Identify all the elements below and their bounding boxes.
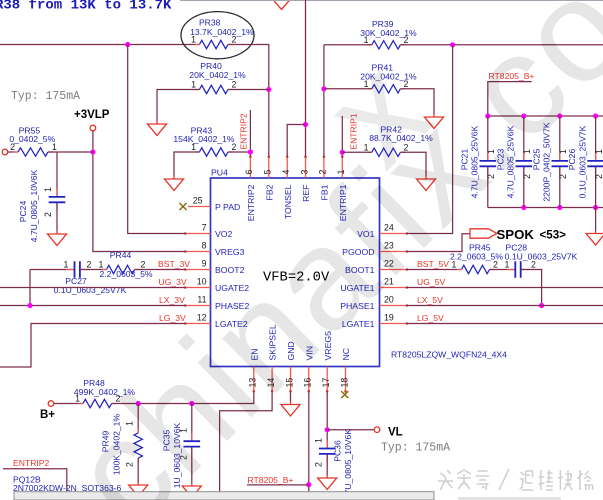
IC top pin stubs pins 6 5 4 3 2 1 <box>250 157 342 179</box>
svg-text:5: 5 <box>263 170 273 175</box>
svg-text:PR44: PR44 <box>110 250 132 260</box>
resistor PR49 <box>134 404 142 483</box>
junctions on cap bank top bus <box>485 113 490 118</box>
svg-text:+3VLP: +3VLP <box>74 109 110 121</box>
wire net ENTRIP2 vertical to pin 6 <box>249 110 251 157</box>
svg-text:0.1U_0603_25V7K: 0.1U_0603_25V7K <box>54 285 127 295</box>
svg-text:ENTRIP2: ENTRIP2 <box>13 458 50 468</box>
svg-text:2: 2 <box>404 35 409 45</box>
svg-text:2: 2 <box>558 174 568 179</box>
resistor PR40 <box>195 85 233 93</box>
capacitor PC28 <box>507 261 529 278</box>
svg-text:7: 7 <box>202 223 207 233</box>
ground for PC36 <box>326 475 328 478</box>
wire B+ to PR48 <box>54 403 83 405</box>
highlight ellipse around PR38 <box>181 12 254 59</box>
wire VO2 branch down and right to pin 7 <box>128 45 185 234</box>
svg-text:1: 1 <box>314 438 324 443</box>
svg-text:0.1U_0603_25V7K: 0.1U_0603_25V7K <box>505 251 578 261</box>
wire ENTRIP1 node to PR42 pin 1 <box>342 151 372 153</box>
junction RT8205_B+ label on VIN wire <box>306 482 311 487</box>
capacitor PC24 <box>49 152 66 231</box>
svg-text:PR38: PR38 <box>199 18 221 28</box>
wire VIN pin 16 down to lower sheet <box>308 392 310 492</box>
junction REF and TONSEL <box>303 122 308 127</box>
wire +3VLP down to VREG3 pin 8 <box>93 131 185 252</box>
svg-text:4.7U_0805_10V6K: 4.7U_0805_10V6K <box>343 429 353 500</box>
capacitor PC36 <box>319 440 336 475</box>
svg-text:BST_3V: BST_3V <box>158 259 190 269</box>
junctions on cap bank bottom bus <box>521 205 526 210</box>
capacitor PC35 <box>184 404 201 484</box>
wire TONSEL pin 4 branch <box>287 125 305 157</box>
ground for PC24 <box>56 231 58 234</box>
svg-text:B+: B+ <box>40 409 55 421</box>
IC left pin stubs pins 25 7 8 9 10 11 12 <box>185 207 211 324</box>
ground for PR49 <box>137 482 139 485</box>
svg-text:9: 9 <box>202 259 207 269</box>
wire PR45 pin 2 to PC28 pin 1 <box>490 269 516 271</box>
junction PC28 and LX_5V <box>539 303 544 308</box>
wire PC27 pin 1 down to LX_3V <box>29 270 31 306</box>
wire cap bank bottom bus <box>488 207 603 209</box>
junction ENTRIP2 and PR43 <box>248 149 253 154</box>
capacitor PC23 <box>516 116 533 208</box>
svg-text:1: 1 <box>43 187 53 192</box>
wire PR41 pin 1 to FB1 node <box>324 88 372 90</box>
svg-text:2: 2 <box>314 462 324 467</box>
junction +3VLP and PR55 <box>90 149 95 154</box>
svg-text:PC36: PC36 <box>333 440 343 462</box>
wire VO1 pin 24 to 5V rail riser <box>406 45 453 234</box>
svg-text:8: 8 <box>202 241 207 251</box>
svg-text:1: 1 <box>52 142 57 152</box>
wire net LX_3V from left edge to PHASE2 pin 11 <box>0 305 185 307</box>
decorative watermark bottom right <box>438 469 593 490</box>
svg-text:RT8205LZQW_WQFN24_4X4: RT8205LZQW_WQFN24_4X4 <box>391 350 507 360</box>
wire PR55 pin 1 to +3VLP node <box>48 151 93 153</box>
ground for PR42 <box>425 176 427 179</box>
svg-text:Typ: 175mA: Typ: 175mA <box>381 442 450 455</box>
wire VREG5 pin 17 to VL and PC36 <box>326 392 328 449</box>
svg-text:4: 4 <box>281 170 291 175</box>
no-connect X on pin 25 P PAD <box>180 203 187 210</box>
junction ENTRIP1 and PR42 <box>340 150 345 155</box>
wire PC26 column to ground <box>595 208 597 231</box>
wire PR44 pin 2 to BOOT2 pin 9 <box>135 269 186 271</box>
svg-text:3: 3 <box>299 170 309 175</box>
junction on top-left rail <box>125 42 130 47</box>
svg-text:0_0402_5%: 0_0402_5% <box>9 134 55 144</box>
svg-text:2: 2 <box>232 142 237 152</box>
wire PR42 pin 2 to ground <box>400 152 426 176</box>
wire net REF from top edge to pin 3 <box>305 0 307 157</box>
resistor PR42 <box>367 148 405 156</box>
battery terminal B+ <box>48 401 54 407</box>
junction PC35 tap on B+ rail <box>189 401 194 406</box>
IC PU4 RT8205 controller body <box>211 178 380 367</box>
wire GND pin 15 stem <box>290 392 292 402</box>
wire ENTRIP2 to transistor PQ12B below <box>3 469 67 491</box>
ground for GND pin 15 <box>290 402 292 405</box>
resistor PR45 <box>457 265 494 273</box>
wire PC28 pin 2 down to LX_5V <box>521 270 542 306</box>
junction LX_3V and PC27 <box>27 303 32 308</box>
svg-text:2: 2 <box>10 142 15 152</box>
resistor PR48 <box>79 399 117 407</box>
capacitor PC25 <box>552 116 569 208</box>
resistor PR41 <box>367 85 405 93</box>
svg-text:R38 from 13K to 13.7K: R38 from 13K to 13.7K <box>0 0 172 14</box>
resistor PR39 <box>367 41 405 49</box>
svg-text:LX_5V: LX_5V <box>417 295 443 305</box>
output terminal VL <box>374 427 380 433</box>
cropped edge artifact line at top <box>180 0 603 2</box>
junction FB1 and PR41 <box>321 86 326 91</box>
svg-text:2: 2 <box>43 212 53 217</box>
resistor PR44 <box>102 265 139 273</box>
svg-text:1: 1 <box>191 80 196 90</box>
svg-text:4.7U_0805_10V6K: 4.7U_0805_10V6K <box>29 169 39 242</box>
junction VREG5 VL tap <box>325 427 330 432</box>
svg-text:2: 2 <box>232 35 237 45</box>
junction PR49 tap on B+ rail <box>136 401 141 406</box>
svg-text:13.7K_0402_1%: 13.7K_0402_1% <box>190 27 254 37</box>
wire net ENTRIP1 vertical to pin 1 <box>341 116 343 157</box>
svg-text:2: 2 <box>493 259 498 269</box>
svg-text:1: 1 <box>594 149 603 154</box>
wire RT8205_B+ label stub to cap bank bus <box>488 82 532 116</box>
svg-text:30K_0402_1%: 30K_0402_1% <box>360 28 417 38</box>
svg-text:Typ: 175mA: Typ: 175mA <box>11 90 80 103</box>
wire net UG_5V UGATE1 pin 21 to right edge <box>406 287 603 289</box>
svg-text:VO2: VO2 <box>215 229 233 239</box>
wire net LG_5V LGATE1 pin 19 to right edge <box>406 323 603 325</box>
resistor PR55 <box>14 148 53 156</box>
svg-text:25: 25 <box>193 195 203 205</box>
svg-text:1: 1 <box>364 35 369 45</box>
svg-text:1: 1 <box>64 259 69 269</box>
svg-text:PC24: PC24 <box>18 201 28 223</box>
wire PR38 pin 2 down to FB2 pin 5 <box>228 45 269 157</box>
junction VO1 riser on 5V rail <box>450 42 455 47</box>
ground for cap bank <box>595 231 597 234</box>
resistor PR38 <box>195 40 233 48</box>
wire SKIPSEL pin 14 down to lower sheet <box>220 392 273 492</box>
svg-text:2: 2 <box>232 80 237 90</box>
wire PR40 pin 1 to ground <box>157 90 199 122</box>
svg-text:1: 1 <box>191 142 196 152</box>
svg-text:2: 2 <box>594 174 603 179</box>
svg-text:2: 2 <box>87 259 92 269</box>
svg-text:2: 2 <box>141 259 146 269</box>
wire net UG_3V from left edge to UGATE2 pin 10 <box>0 287 185 289</box>
capacitor PC26 <box>587 116 603 208</box>
wire FB1 pin 2 up to divider <box>323 45 325 157</box>
wire VREG5 to VL terminal <box>327 429 374 431</box>
svg-text:1: 1 <box>191 35 196 45</box>
wire RT8205_B+ label underline bottom <box>247 484 309 486</box>
svg-text:6: 6 <box>244 169 254 174</box>
lower sheet component box edge <box>14 492 434 500</box>
svg-text:20K_0402_1%: 20K_0402_1% <box>189 70 246 80</box>
svg-text:18: 18 <box>339 378 349 388</box>
svg-text:1: 1 <box>505 259 510 269</box>
wire PR43 pin 1 to ground <box>174 152 199 176</box>
wire PR41 pin 2 to ground <box>400 89 434 114</box>
resistor PR43 <box>195 148 233 156</box>
svg-text:RT8205_B+: RT8205_B+ <box>248 475 294 485</box>
ground symbol at top edge (cut off) <box>272 0 291 10</box>
capacitor PC21 <box>480 116 497 208</box>
svg-text:<53>: <53> <box>540 229 567 242</box>
wire terminal to PR55 <box>8 151 18 153</box>
input terminal for PR55 pin 2 <box>2 149 8 155</box>
svg-text:PU4: PU4 <box>211 168 228 178</box>
svg-text:LG_5V: LG_5V <box>417 313 444 323</box>
svg-text:UG_3V: UG_3V <box>159 277 187 287</box>
wire PR39 pin 2 to right edge 5V rail <box>400 44 603 46</box>
wire FB1 node to PR39 pin 1 <box>324 44 372 46</box>
svg-text:1: 1 <box>99 259 104 269</box>
svg-text:2.2_0603_5%: 2.2_0603_5% <box>99 269 152 279</box>
svg-text:FB2: FB2 <box>264 184 274 200</box>
power terminal +3VLP <box>90 125 96 131</box>
svg-text:SPOK: SPOK <box>497 227 535 242</box>
wire cap bank top bus <box>488 115 603 117</box>
wire net LG_3V from LGATE2 pin 12 to left edge <box>0 324 185 368</box>
junction FB2 and PR40 <box>266 87 271 92</box>
wire B+ rail from PR48 to EN pin 13 <box>112 392 254 404</box>
svg-text:2: 2 <box>531 259 536 269</box>
wire BOOT1 pin 22 to PR45 <box>406 269 462 271</box>
svg-text:VL: VL <box>388 427 403 439</box>
ground for PR43 <box>173 176 175 179</box>
svg-text:154K_0402_1%: 154K_0402_1% <box>173 134 235 144</box>
svg-text:PC26: PC26 <box>567 149 577 171</box>
ground for PC35 <box>191 483 193 486</box>
svg-text:ENTRIP2: ENTRIP2 <box>238 113 248 150</box>
wire PR43 pin 2 to ENTRIP2 net <box>228 151 250 153</box>
capacitor PC27 <box>30 261 107 278</box>
svg-text:P PAD: P PAD <box>215 202 240 212</box>
wire net LX_5V PHASE1 pin 20 to right edge <box>406 305 603 307</box>
ground for PR41 <box>433 114 435 117</box>
wire top-left rail to PR38 pin 1 <box>0 44 199 46</box>
wire PGOOD pin 23 to SPOK port <box>406 234 470 252</box>
svg-text:ENTRIP2: ENTRIP2 <box>246 184 256 221</box>
wire PR40 pin 2 to FB2 node <box>228 89 269 91</box>
IC right pin stubs pins 24 23 22 21 20 19 <box>380 234 408 324</box>
no-connect X on pin 18 NC <box>345 392 347 394</box>
off-page connector SPOK arrow <box>470 229 497 238</box>
ground for PR40 <box>156 121 158 124</box>
IC bottom pin stubs pins 13 14 15 16 17 18 <box>254 367 346 392</box>
